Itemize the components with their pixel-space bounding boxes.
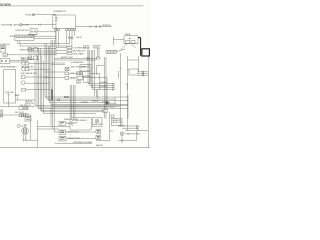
lamp X — [96, 120, 99, 123]
wire row1 — [35, 14, 56, 16]
svg-text:UNIT: UNIT — [74, 122, 78, 124]
bottom border line — [0, 147, 150, 149]
wire bottom left — [26, 139, 37, 141]
marks — [60, 138, 64, 140]
gauge G2 box — [25, 68, 28, 71]
junction block box (tall left) — [4, 69, 16, 103]
wire G4 with junctions — [25, 82, 50, 84]
wire row y53 — [28, 52, 56, 54]
box B pins — [78, 72, 81, 75]
marks — [60, 122, 64, 123]
relay box C — [83, 71, 90, 76]
text inside meter unit — [74, 120, 88, 124]
wire G3 — [25, 76, 50, 78]
diagonal wire to battery — [117, 49, 126, 52]
svg-text:COMBINATION: COMBINATION — [53, 10, 66, 13]
diagonal lead R1b — [131, 44, 136, 48]
wire from fuse — [7, 54, 28, 56]
svg-text:TURN SIGNAL CANCELLING UNIT: TURN SIGNAL CANCELLING UNIT — [1, 24, 31, 27]
verticals x104/106 mid-right — [104, 57, 106, 110]
label 2-line mid-left — [25, 101, 34, 105]
connector circle row2 — [20, 23, 22, 25]
wire vertical x138.4 — [137, 56, 139, 72]
horn hatch — [23, 128, 26, 134]
K1 marks — [23, 107, 27, 110]
right box with wires — [129, 69, 138, 75]
small box row1 — [67, 46, 72, 48]
svg-text:STARTER: STARTER — [66, 122, 75, 125]
fuse lead — [7, 94, 9, 107]
contacts — [1, 60, 3, 62]
corner drops right — [115, 95, 128, 119]
wire from flasher E down — [95, 78, 107, 102]
connector marks on trunk — [64, 96, 68, 98]
big center box group — [80, 65, 91, 71]
svg-text:HEADLIGHT: HEADLIGHT — [93, 123, 102, 126]
tick column x113 — [113, 83, 114, 90]
svg-text:HORN SWITCH: HORN SWITCH — [16, 30, 30, 32]
wire y63 — [51, 62, 65, 64]
gauge G4 — [21, 81, 25, 85]
wire label column a — [83, 45, 101, 49]
small marks — [111, 115, 114, 118]
wire row y46 — [20, 45, 70, 47]
connector ticks right wires — [143, 71, 144, 76]
top border line — [0, 5, 144, 7]
marks — [97, 131, 100, 132]
tail lamp X — [121, 132, 123, 134]
ignition connector box — [0, 59, 10, 64]
sensor S2 — [21, 88, 25, 91]
thick battery wire — [138, 38, 141, 56]
svg-text:OIL PRESS SW: OIL PRESS SW — [73, 48, 86, 50]
dark connector x107 — [106, 102, 109, 105]
fuse box — [0, 46, 6, 52]
left edge marks — [0, 112, 2, 116]
svg-text:RADIATOR: RADIATOR — [112, 119, 121, 122]
combination switch box — [53, 15, 76, 29]
wire y132 left — [54, 131, 59, 133]
wire y140.4 right — [96, 131, 110, 141]
fuse box marks — [1, 47, 5, 49]
svg-text:SIDE STAND: SIDE STAND — [73, 53, 84, 56]
label right of fan box — [118, 126, 126, 128]
svg-text:REAR FOG LIGHT: REAR FOG LIGHT — [126, 133, 140, 136]
stripes — [108, 51, 116, 54]
svg-text:NEUTRAL SW: NEUTRAL SW — [73, 50, 85, 53]
relay row 2 — [59, 136, 66, 141]
short verticals x96-98 — [96, 90, 97, 99]
lamp box L1 — [65, 67, 69, 70]
connector pair on wire — [95, 25, 101, 27]
wire row y54 — [28, 54, 56, 56]
wire drops from connector — [18, 41, 20, 47]
relay box R1 top right — [124, 36, 138, 44]
gauge G3 — [21, 76, 25, 79]
svg-text:GRN/RED: GRN/RED — [92, 100, 100, 102]
svg-text:ILLUMINATION: ILLUMINATION — [71, 61, 84, 64]
wire row y51 — [28, 50, 56, 52]
wire y129 — [37, 128, 59, 130]
diode D1 — [68, 36, 71, 43]
svg-text:GRN/BLK: GRN/BLK — [100, 82, 108, 84]
corner of junction box right — [97, 65, 104, 75]
hatch inside left — [71, 119, 73, 126]
svg-text:DIODE: DIODE — [76, 37, 82, 39]
svg-text:BRN/WHT: BRN/WHT — [102, 25, 111, 27]
wire vertical x127.4 — [126, 56, 128, 131]
vertical drops center-bottom — [70, 85, 75, 118]
wire from ignition — [10, 61, 28, 62]
connector pair row2 — [39, 24, 40, 26]
wire — [69, 77, 77, 79]
marks — [97, 136, 100, 138]
gauge G1 — [22, 62, 26, 66]
svg-text:BLK/WHT: BLK/WHT — [81, 102, 88, 104]
horn leads — [24, 134, 26, 140]
wire vertical x30.7 — [30, 115, 32, 140]
wire y128 right — [122, 127, 138, 129]
wire row1 — [66, 131, 96, 133]
svg-text:RELAY: RELAY — [76, 82, 82, 85]
wire from C — [90, 72, 97, 74]
comp box D — [65, 77, 69, 80]
wire S2 — [26, 89, 50, 91]
svg-text:ALTERNATOR 3-PHASE: ALTERNATOR 3-PHASE — [74, 141, 94, 144]
right conn row2 — [96, 135, 101, 139]
right conn row1 — [96, 130, 101, 134]
small box row2 — [67, 49, 72, 51]
wires into right box — [127, 70, 148, 75]
diagonal lead R1 — [120, 44, 127, 51]
svg-text:FUSE 10A: FUSE 10A — [5, 91, 14, 94]
connector boxes mid-left — [28, 48, 32, 52]
vertical bundle xF — [88, 50, 114, 96]
pin drops — [56, 31, 75, 46]
lamp ground — [121, 135, 124, 142]
wire rows y47-53 to boxes — [56, 47, 67, 53]
connector box right mid — [103, 110, 108, 113]
svg-text:RED/BLK: RED/BLK — [93, 47, 101, 49]
K2 marks — [22, 114, 26, 117]
labels on trunk — [81, 100, 117, 105]
wire drop — [16, 97, 18, 100]
relay row 0 — [59, 121, 65, 125]
svg-text:TACHOMETER: TACHOMETER — [21, 66, 34, 69]
fuse legend striped box — [106, 51, 117, 54]
wire vertical from row1 — [55, 15, 57, 55]
connector pins — [17, 36, 19, 38]
dark trunk segment — [51, 89, 53, 100]
ground horn — [22, 140, 27, 141]
trunk corner group (left bundle turns right) — [35, 48, 128, 113]
wire row0 — [37, 125, 70, 127]
trunk rows upper — [45, 43, 128, 102]
tick row1 — [54, 14, 55, 16]
wire row2 — [22, 24, 56, 26]
connector marks x97 — [96, 57, 100, 59]
wire y126 right — [118, 126, 138, 131]
tick on xL — [120, 67, 122, 69]
flasher relay box — [83, 76, 90, 82]
small box row3 — [67, 52, 72, 54]
left edge component — [0, 110, 3, 117]
right border line — [147, 55, 149, 148]
label 2-line — [76, 80, 82, 85]
vertical bundle xC — [51, 40, 54, 132]
wire vertical x37.3 — [36, 120, 38, 148]
svg-text:SPARK PLUGS: SPARK PLUGS — [68, 137, 81, 140]
svg-text:SPEEDOMETER: SPEEDOMETER — [20, 49, 34, 51]
connector K2 — [19, 114, 28, 117]
drops below connector — [104, 112, 106, 118]
wire y130.4 — [125, 129, 148, 131]
wire row y48 — [28, 48, 56, 50]
wire y26.6 right — [76, 26, 112, 28]
R1 mark — [129, 38, 130, 40]
wire — [69, 72, 77, 74]
wire y60 right — [127, 59, 138, 61]
comp box A — [65, 72, 69, 75]
svg-text:METER ASSEMBLY: METER ASSEMBLY — [1, 65, 18, 68]
headlight lamp — [95, 119, 99, 123]
lamp X — [65, 67, 69, 70]
meter unit box (rounded) — [70, 118, 92, 130]
tick right — [125, 84, 127, 90]
horn stem — [24, 125, 26, 126]
connector box B — [77, 72, 82, 75]
labels on y84-90 band — [100, 82, 108, 88]
gauge G2 — [22, 67, 26, 71]
wire into R1 — [113, 36, 124, 45]
svg-text:RELAY: RELAY — [125, 33, 132, 36]
tail lamp — [120, 132, 124, 136]
connector box E — [77, 76, 83, 79]
vertical x88 top — [87, 48, 89, 57]
wire from E — [83, 77, 95, 79]
svg-text:RED/GRN: RED/GRN — [109, 104, 117, 106]
wire row y43 — [18, 42, 70, 44]
wire y77 row — [44, 77, 65, 79]
headlight box — [92, 118, 102, 127]
trunk extra rows — [51, 104, 128, 106]
fuse F1 — [3, 53, 7, 56]
vertical xJ — [110, 112, 113, 131]
svg-text:IGNITION COIL: IGNITION COIL — [67, 131, 79, 133]
fuse element F1 — [4, 54, 7, 57]
svg-text:FUSE 15A: FUSE 15A — [81, 65, 90, 68]
box inner marks — [55, 18, 58, 21]
svg-text:CLOCK: CLOCK — [21, 125, 28, 127]
connector K1 — [19, 107, 28, 110]
R1 pins — [126, 40, 130, 43]
wire y64.6 — [51, 64, 65, 66]
wire from relay C down — [97, 73, 100, 89]
clock symbol — [17, 125, 20, 128]
wire y58.6 — [54, 58, 96, 60]
bottom wire y143.6 — [55, 143, 92, 145]
wire y60 — [54, 59, 96, 61]
diode D2 — [71, 36, 74, 47]
wire y72 row — [44, 71, 65, 73]
switch box S1 — [30, 29, 37, 35]
fan box text — [112, 119, 122, 124]
battery box (thick) — [142, 49, 150, 56]
wires from spiral cable right — [34, 36, 56, 38]
wire G1 — [29, 63, 50, 65]
connector box below K2 — [25, 117, 31, 121]
svg-text:FAN SW: FAN SW — [96, 144, 103, 147]
wire bottom right — [118, 131, 137, 140]
connector ticks — [137, 125, 138, 129]
svg-text:GRN/WHT: GRN/WHT — [93, 45, 101, 47]
svg-text:IGNITION: IGNITION — [25, 101, 33, 103]
switch contacts S1 — [31, 31, 32, 32]
long wire y106 — [0, 106, 35, 108]
fan box right — [112, 119, 123, 126]
spiral cable connector box — [15, 35, 34, 41]
wire y115 — [0, 114, 31, 116]
connector x88 — [87, 57, 89, 59]
pin row under box — [55, 29, 57, 31]
vertical pair x97 — [97, 48, 99, 57]
wire G2 — [29, 68, 50, 70]
relay row 1 — [59, 130, 66, 134]
connector circle row1 — [32, 13, 34, 15]
marks — [60, 131, 64, 133]
wire row2 — [66, 138, 96, 140]
gauge G1 box — [25, 62, 28, 65]
junction dots G4 — [37, 83, 44, 84]
wire from junction box right — [16, 99, 35, 101]
vertical xL — [120, 53, 122, 126]
short vertical x118 — [118, 71, 120, 78]
connector boxes mid-left 2 — [28, 56, 32, 60]
wire from S1 — [37, 31, 56, 33]
horn symbol (circle with hatch) — [22, 127, 29, 134]
